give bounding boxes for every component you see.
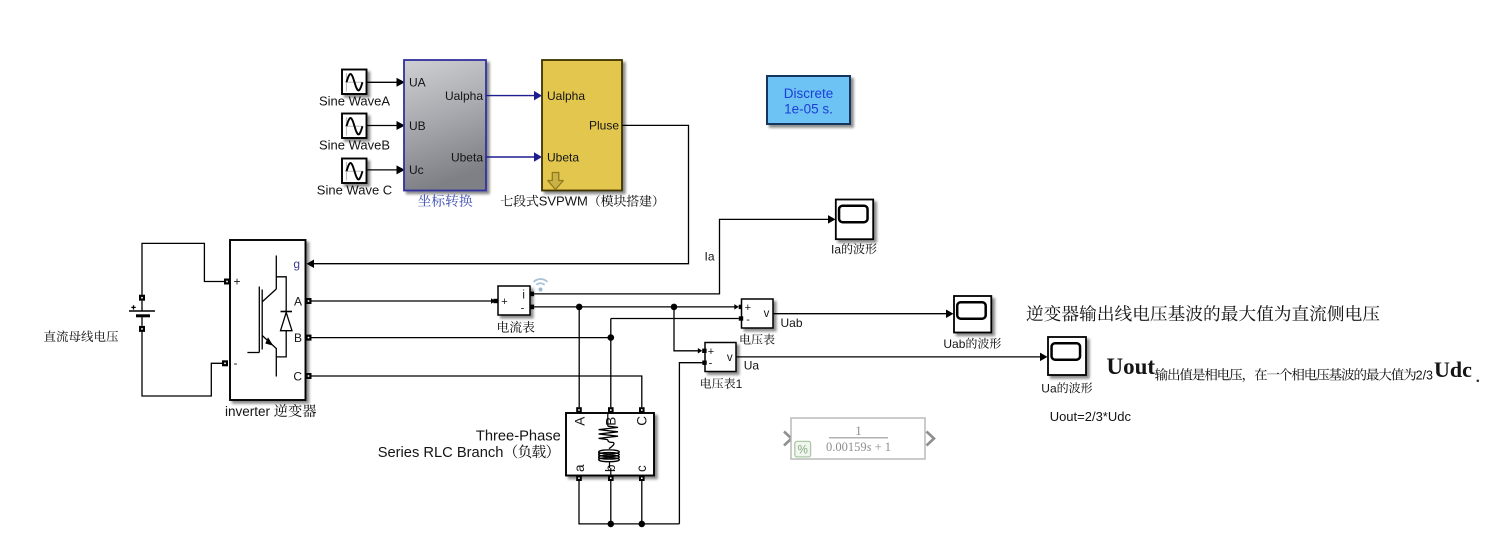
- scope block Ia的波形: [836, 200, 873, 240]
- wire i output to Ia scope: [534, 215, 835, 294]
- wire RLC b to neutral: [608, 481, 615, 527]
- subsystem block 坐标转换 (coordinate transform): [404, 60, 486, 191]
- svg-text:-: -: [521, 302, 525, 314]
- wire sine wave to coordinate-transform input: [367, 165, 406, 174]
- wire Ualpha/Ubeta (blue signal): [486, 152, 542, 162]
- voltage measurement block 电压表: [739, 299, 773, 328]
- wire Ualpha/Ubeta (blue signal): [486, 91, 542, 101]
- label Ia: [704, 250, 714, 264]
- svg-text:A: A: [572, 417, 587, 426]
- junction node Ua tap: [671, 304, 678, 311]
- label 电流表: [498, 321, 534, 333]
- svg-text:Ubeta: Ubeta: [547, 150, 579, 164]
- inverter IGBT + diode icon: [247, 256, 292, 377]
- annotation 输出值是相电压，在一个相电压基波的最大值为2/3: [1155, 368, 1433, 383]
- svg-text:Discrete: Discrete: [784, 86, 834, 101]
- label 七段式SVPWM（模块搭建）: [501, 194, 657, 209]
- svg-text:UA: UA: [409, 76, 426, 90]
- wire 电流表 minus to 电压表 plus: [534, 304, 743, 310]
- svg-text:Ualpha: Ualpha: [445, 89, 483, 103]
- svg-text:v: v: [764, 308, 770, 320]
- scope block Uab的波形: [954, 296, 991, 333]
- wifi logging badge: [534, 279, 548, 292]
- wire 电压表 minus to B-phase: [611, 318, 739, 320]
- label 电压表: [741, 334, 775, 345]
- svg-text:v: v: [727, 352, 733, 364]
- svg-text:C: C: [293, 369, 302, 383]
- label 直流母线电压: [44, 330, 118, 342]
- wire 电压表1 minus to neutral: [679, 363, 702, 524]
- svg-text:Series RLC Branch: Series RLC Branch: [378, 445, 504, 461]
- svg-text:Ua: Ua: [744, 359, 760, 373]
- junction node A-phase tap: [576, 304, 583, 311]
- svg-text:SVPWM: SVPWM: [539, 194, 588, 209]
- svg-text:1: 1: [736, 377, 743, 391]
- label inverter 逆变器: [225, 404, 316, 419]
- wire sine wave to coordinate-transform input: [367, 78, 406, 87]
- svg-text:g: g: [293, 257, 300, 271]
- label Three-Phase Series RLC Branch（负载）: [378, 429, 561, 462]
- svg-text:-: -: [746, 314, 750, 326]
- svg-text:Sine Wave C: Sine Wave C: [317, 183, 392, 198]
- annotation Uout: [1107, 354, 1156, 379]
- svg-text:UB: UB: [409, 119, 426, 133]
- source block Sine Wave C: [317, 159, 392, 198]
- label 坐标转换: [418, 194, 472, 207]
- label Ua: [744, 359, 760, 373]
- wire sine wave to coordinate-transform input: [367, 121, 406, 130]
- label Ua的波形: [1041, 381, 1092, 395]
- junction node B-phase: [608, 334, 615, 341]
- svg-text:inverter: inverter: [225, 404, 271, 419]
- svg-text:Uab: Uab: [781, 316, 803, 330]
- svg-text:+: +: [501, 296, 507, 308]
- label Uab: [781, 316, 803, 330]
- svg-text:a: a: [572, 464, 587, 472]
- svg-text:Sine WaveA: Sine WaveA: [319, 94, 390, 109]
- svg-text:A: A: [294, 294, 302, 308]
- svg-text:+: +: [708, 346, 714, 358]
- svg-text:-: -: [709, 358, 713, 370]
- svg-text:Ubeta: Ubeta: [451, 150, 483, 164]
- powergui block Discrete 1e-05 s.: [767, 76, 850, 124]
- svg-text:1: 1: [855, 423, 862, 438]
- voltage measurement block 电压表1: [702, 343, 736, 372]
- label 电压表1: [701, 377, 743, 391]
- svg-text:B: B: [603, 417, 618, 426]
- wire battery - to inverter -: [142, 332, 222, 396]
- DC source battery 直流母线电压: [129, 295, 155, 332]
- three-phase series RLC branch block: [378, 305, 1479, 527]
- annotation Udc: [1434, 357, 1479, 382]
- label Ia的波形: [831, 242, 877, 256]
- svg-text:1e-05 s.: 1e-05 s.: [784, 101, 833, 116]
- svg-text:C: C: [634, 416, 649, 426]
- inverter block (universal bridge): [44, 200, 1479, 528]
- annotation Uout=2/3*Udc: [1050, 409, 1132, 424]
- wire Ua tap down to 电压表1 plus: [674, 307, 707, 354]
- subsystem block 七段式SVPWM: [542, 60, 622, 191]
- svg-text:B: B: [294, 331, 302, 345]
- svg-text:+: +: [234, 275, 241, 289]
- svg-text:Uout=2/3*Udc: Uout=2/3*Udc: [1050, 409, 1132, 424]
- wire Pluse to inverter gate g: [307, 125, 689, 268]
- wire RLC a to neutral: [579, 481, 679, 524]
- wire 电压表1 v to Ua scope: [736, 353, 1048, 362]
- svg-text:Three-Phase: Three-Phase: [476, 429, 561, 445]
- inverter port squares A B C + -: [222, 279, 312, 380]
- svg-text:Udc: Udc: [1434, 357, 1472, 382]
- wire A-phase down to RLC A: [578, 307, 580, 407]
- svg-text:Sine WaveB: Sine WaveB: [319, 138, 390, 153]
- wire RLC c to neutral: [639, 481, 646, 527]
- svg-text:Uc: Uc: [409, 163, 424, 177]
- wire inverter A to 电流表: [312, 298, 498, 304]
- wire inverter B to RLC B: [312, 319, 611, 408]
- source block Sine WaveB: [319, 114, 390, 153]
- current measurement block 电流表: [498, 286, 534, 315]
- svg-text:+: +: [745, 302, 751, 314]
- svg-text:Ualpha: Ualpha: [547, 89, 585, 103]
- wire 电压表 v to Uab scope: [773, 309, 954, 318]
- svg-text:0.00159s + 1: 0.00159s + 1: [826, 440, 891, 454]
- svg-text:c: c: [634, 465, 649, 472]
- scope block Ua的波形: [1048, 337, 1086, 375]
- svg-text:Pluse: Pluse: [589, 119, 619, 133]
- svg-text:%: %: [798, 445, 808, 457]
- svg-text:i: i: [522, 289, 525, 301]
- svg-text:Uout: Uout: [1107, 354, 1156, 379]
- svg-text:2/3: 2/3: [1416, 369, 1433, 383]
- commented-through transfer fcn block 1/(0.00159s+1): [784, 418, 934, 459]
- svg-text:-: -: [234, 356, 238, 370]
- svg-text:Uab: Uab: [943, 337, 965, 351]
- annotation 逆变器输出线电压基波的最大值为直流侧电压: [1027, 305, 1380, 322]
- wire battery + to inverter +: [142, 243, 224, 294]
- RLC resistor + inductor icon: [599, 413, 620, 475]
- wire inverter C to RLC C: [312, 376, 642, 407]
- svg-text:Ia: Ia: [704, 250, 714, 264]
- svg-text:Ua: Ua: [1041, 381, 1057, 395]
- label Uab的波形: [943, 337, 1001, 351]
- svg-text:Ia: Ia: [831, 242, 841, 256]
- source block Sine WaveA: [319, 70, 390, 109]
